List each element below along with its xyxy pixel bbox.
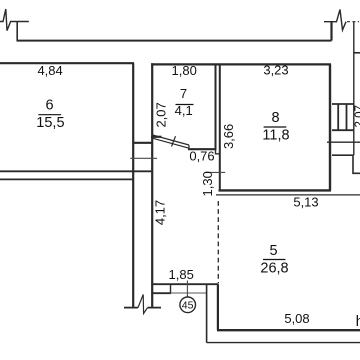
svg-text:11,8: 11,8 bbox=[262, 128, 289, 144]
svg-text:5: 5 bbox=[270, 243, 278, 259]
svg-text:2,07: 2,07 bbox=[153, 102, 168, 127]
svg-text:4,1: 4,1 bbox=[175, 103, 193, 118]
svg-text:3,23: 3,23 bbox=[263, 63, 288, 78]
svg-text:0,76: 0,76 bbox=[189, 149, 214, 164]
svg-text:6: 6 bbox=[45, 97, 53, 113]
svg-text:2,07: 2,07 bbox=[354, 105, 360, 127]
svg-text:7: 7 bbox=[180, 86, 187, 101]
svg-text:1,85: 1,85 bbox=[169, 267, 194, 282]
svg-text:1,80: 1,80 bbox=[172, 63, 197, 78]
svg-text:3,66: 3,66 bbox=[221, 124, 236, 149]
svg-text:h: h bbox=[356, 313, 360, 330]
svg-text:45: 45 bbox=[182, 300, 194, 312]
svg-text:15,5: 15,5 bbox=[36, 115, 64, 131]
svg-text:4,17: 4,17 bbox=[153, 200, 168, 225]
svg-text:1,30: 1,30 bbox=[200, 171, 215, 196]
svg-text:5,13: 5,13 bbox=[293, 194, 318, 209]
svg-text:4,84: 4,84 bbox=[37, 63, 62, 78]
svg-text:8: 8 bbox=[272, 110, 280, 126]
svg-text:26,8: 26,8 bbox=[260, 261, 288, 277]
svg-text:5,08: 5,08 bbox=[284, 311, 309, 326]
